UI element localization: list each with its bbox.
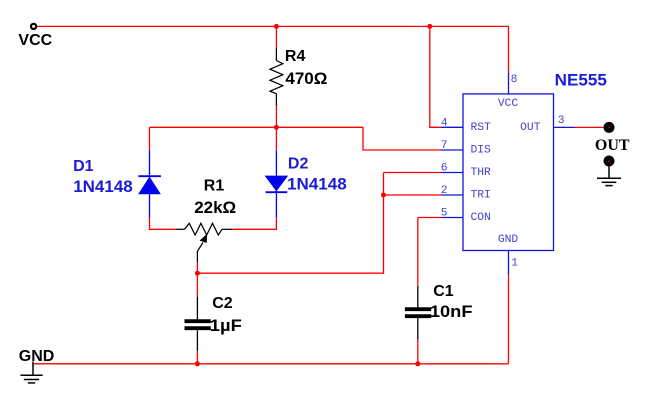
svg-text:VCC: VCC [18, 32, 52, 49]
svg-text:C1: C1 [433, 283, 454, 300]
svg-text:5: 5 [441, 208, 448, 220]
svg-text:THR: THR [471, 167, 492, 179]
svg-text:10nF: 10nF [430, 302, 473, 321]
svg-text:470Ω: 470Ω [285, 69, 327, 88]
svg-text:DIS: DIS [471, 144, 492, 156]
svg-text:1N4148: 1N4148 [287, 174, 347, 193]
svg-text:2: 2 [441, 185, 448, 197]
svg-text:8: 8 [511, 74, 518, 86]
svg-text:1: 1 [511, 257, 518, 269]
svg-text:R1: R1 [204, 177, 225, 194]
svg-text:CON: CON [471, 212, 491, 224]
svg-text:GND: GND [19, 348, 55, 365]
svg-text:OUT: OUT [520, 122, 541, 134]
svg-text:GND: GND [498, 234, 519, 246]
svg-text:C2: C2 [212, 295, 233, 312]
svg-text:VCC: VCC [498, 98, 519, 110]
svg-text:RST: RST [471, 122, 492, 134]
svg-text:TRI: TRI [471, 189, 491, 201]
svg-text:D1: D1 [73, 158, 94, 175]
svg-text:6: 6 [441, 163, 448, 175]
svg-text:D2: D2 [288, 156, 309, 173]
svg-text:4: 4 [441, 118, 448, 130]
svg-text:OUT: OUT [595, 137, 630, 154]
svg-text:1µF: 1µF [210, 316, 242, 335]
svg-text:NE555: NE555 [555, 71, 607, 90]
svg-text:22kΩ: 22kΩ [194, 198, 236, 217]
svg-text:1N4148: 1N4148 [73, 177, 133, 196]
svg-text:7: 7 [441, 140, 448, 152]
svg-text:R4: R4 [285, 48, 306, 65]
svg-text:3: 3 [558, 115, 565, 127]
